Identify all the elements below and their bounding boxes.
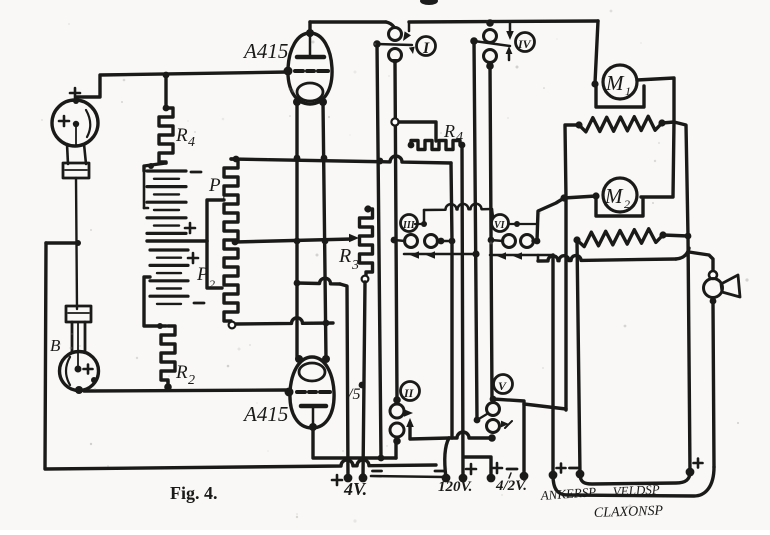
- svg-text:P: P: [196, 264, 209, 285]
- svg-text:A415: A415: [242, 402, 288, 426]
- svg-text:4V.: 4V.: [343, 479, 367, 499]
- svg-text:M: M: [604, 184, 624, 208]
- svg-text:II: II: [403, 386, 415, 400]
- svg-text:2: 2: [188, 373, 195, 388]
- svg-text:P: P: [208, 175, 221, 196]
- svg-text:IV: IV: [517, 37, 532, 51]
- svg-text:2: 2: [209, 277, 215, 291]
- svg-text:R: R: [443, 121, 455, 141]
- svg-text:V: V: [498, 379, 507, 393]
- svg-text:120V.: 120V.: [438, 479, 473, 495]
- svg-text:/5: /5: [347, 386, 360, 403]
- svg-text:III: III: [402, 220, 416, 231]
- svg-text:1: 1: [221, 188, 227, 202]
- svg-text:R: R: [175, 125, 188, 146]
- svg-text:3: 3: [351, 258, 359, 273]
- svg-text:VELDSP: VELDSP: [612, 482, 660, 499]
- svg-text:Fig. 4.: Fig. 4.: [170, 483, 218, 503]
- svg-text:4: 4: [456, 130, 463, 145]
- svg-text:B: B: [50, 336, 61, 355]
- svg-text:M: M: [605, 71, 625, 95]
- svg-text:A415: A415: [242, 39, 288, 63]
- svg-text:R: R: [338, 245, 351, 267]
- svg-text:I: I: [422, 40, 430, 57]
- svg-text:2: 2: [624, 197, 630, 211]
- svg-text:4/2V.: 4/2V.: [495, 478, 527, 494]
- svg-text:1: 1: [625, 84, 631, 98]
- svg-text:VI: VI: [494, 220, 506, 231]
- svg-text:R: R: [175, 362, 188, 383]
- svg-text:4: 4: [188, 135, 195, 150]
